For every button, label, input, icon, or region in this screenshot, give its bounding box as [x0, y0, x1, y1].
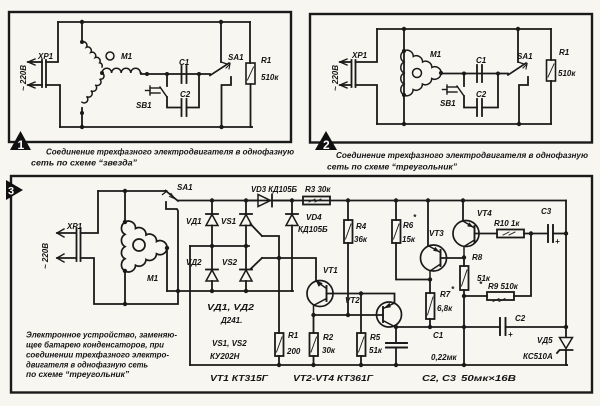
- wire R1 to bottom rail: [550, 81, 552, 124]
- svg-text:510к: 510к: [261, 73, 279, 82]
- wire motor top riser: [124, 191, 126, 222]
- motor M1 housing circle: [413, 69, 422, 78]
- svg-text:С2: С2: [180, 90, 191, 99]
- wire C2 return to phase line: [187, 74, 200, 108]
- capacitor C2: [477, 99, 482, 116]
- motor M1 winding C (bottom coil): [82, 73, 104, 103]
- node SA1 line / bridge bottom: [176, 289, 180, 293]
- wire top rail to winding A: [81, 22, 83, 42]
- svg-text:VД1, VД2: VД1, VД2: [207, 303, 255, 312]
- motor M1 delta winding: [404, 50, 441, 73]
- svg-text:R9 510к: R9 510к: [488, 282, 519, 291]
- capacitor C1: [386, 327, 407, 365]
- resistor R3: [303, 197, 330, 205]
- wire top rail: [377, 28, 551, 30]
- node VT4 collector / VT3 base: [462, 255, 466, 259]
- svg-text:200: 200: [286, 347, 301, 356]
- wire XP1 bottom arm to bottom rail: [46, 85, 60, 127]
- node SA1 bottom throw / bottom rail: [517, 122, 521, 126]
- wire bridge bottom: [167, 290, 293, 292]
- svg-text:~ 220В: ~ 220В: [19, 65, 28, 91]
- node VT1 emitter: [311, 313, 315, 317]
- description text block: [26, 331, 177, 380]
- svg-text:VД1: VД1: [186, 217, 202, 226]
- capacitor C2: [182, 99, 187, 116]
- connector XP1: [340, 59, 356, 88]
- node R5 top: [359, 291, 363, 295]
- resistor R9: [464, 234, 531, 302]
- transistor VT4: [453, 201, 497, 258]
- svg-text:R6: R6: [403, 221, 414, 230]
- svg-text:R1: R1: [559, 48, 570, 57]
- capacitor C1: [182, 66, 187, 83]
- svg-text:R8: R8: [472, 253, 483, 262]
- svg-text:сеть по схеме “звезда”: сеть по схеме “звезда”: [31, 159, 138, 168]
- diode VD2: [206, 246, 218, 291]
- svg-text:С1: С1: [179, 58, 190, 67]
- node VT4 emitter top: [461, 198, 465, 202]
- svg-text:сеть по схеме “треугольник”: сеть по схеме “треугольник”: [327, 163, 458, 172]
- node R6 top: [394, 198, 398, 202]
- node VD1 top: [210, 198, 214, 202]
- wire VS1 gate to R1: [262, 236, 279, 333]
- motor M1 housing circle: [133, 239, 145, 251]
- svg-text:3: 3: [8, 186, 14, 198]
- node top rail / winding A: [80, 20, 84, 24]
- svg-text:+: +: [508, 330, 513, 339]
- wire motor left riser: [403, 29, 405, 124]
- wire VT1 emitter to R2: [313, 315, 315, 333]
- svg-text:VS1, VS2: VS1, VS2: [212, 339, 247, 348]
- switch SA1: [508, 29, 528, 124]
- node R9 left: [462, 294, 466, 298]
- transistor VT3: [421, 201, 465, 280]
- resistor R8: [460, 258, 469, 366]
- svg-text:36к: 36к: [354, 235, 368, 244]
- capacitor C2: [500, 318, 566, 335]
- svg-text:щее батарею конденсаторов, при: щее батарею конденсаторов, при: [26, 341, 164, 350]
- wire XP1 top arm to top rail: [356, 29, 378, 62]
- node motor right vertex: [165, 246, 169, 250]
- node R10 right / C3: [529, 231, 533, 235]
- svg-text:0,22мк: 0,22мк: [431, 353, 457, 362]
- node VT3 collector junction: [428, 277, 432, 281]
- node SA1 top: [219, 20, 223, 24]
- wire bridge mid to common rail: [189, 246, 191, 365]
- wire base line VT2: [314, 314, 384, 316]
- wire top rail: [58, 21, 250, 23]
- wire VT1 base to VT2 emitter: [361, 294, 395, 304]
- switch SA1: [210, 22, 231, 127]
- node VS1 top: [244, 198, 248, 202]
- node bottom rail / motor: [402, 122, 406, 126]
- node VT3 emitter top: [426, 198, 430, 202]
- node C2 right rail: [564, 325, 568, 329]
- node SA1 top: [516, 27, 520, 31]
- node motor bottom-left vertex: [402, 93, 406, 97]
- wire top rail to R1: [550, 29, 552, 60]
- panel 3 frame: [11, 176, 592, 393]
- wire SB1 branch down: [166, 74, 168, 86]
- svg-text:R3 30к: R3 30к: [305, 185, 331, 194]
- svg-text:КД105Б: КД105Б: [298, 225, 328, 234]
- wire motor right vertex down: [166, 248, 168, 291]
- wire VT2 collector to R8 line: [396, 326, 464, 328]
- resistor R7: [426, 280, 435, 328]
- svg-text:VТ4: VТ4: [477, 209, 492, 218]
- node VD4 top: [290, 198, 294, 202]
- svg-text:VТ1 КТ315Г: VТ1 КТ315Г: [210, 374, 269, 383]
- svg-text:Д241.: Д241.: [220, 316, 242, 325]
- wire phase line to SA1: [441, 72, 508, 75]
- node winding C terminal: [80, 111, 84, 115]
- resistor R6: [392, 201, 430, 280]
- svg-text:R10 1к: R10 1к: [494, 219, 520, 228]
- wire motor bottom riser: [124, 271, 126, 304]
- wire VS2 gate to VT1 collector: [262, 258, 316, 281]
- svg-text:VS1: VS1: [221, 217, 237, 226]
- node C2 return: [496, 72, 500, 76]
- node SB1 branch: [165, 72, 169, 76]
- resistor R1: [246, 63, 255, 84]
- transistor VT1: [307, 280, 361, 315]
- svg-text:51к: 51к: [369, 346, 383, 355]
- svg-text:С1: С1: [476, 56, 487, 65]
- svg-text:XP1: XP1: [351, 51, 368, 60]
- zener diode VD5: [557, 338, 573, 366]
- svg-text:по схеме “треугольник”: по схеме “треугольник”: [26, 370, 129, 379]
- svg-text:*: *: [451, 285, 455, 294]
- svg-text:КУ202Н: КУ202Н: [210, 352, 240, 361]
- node VD1 bottom: [210, 244, 214, 248]
- svg-text:VТ2-VТ4 КТ361Г: VТ2-VТ4 КТ361Г: [293, 374, 374, 383]
- wire bottom rail: [60, 126, 252, 128]
- svg-text:Соединение трехфазного электро: Соединение трехфазного электродвигателя …: [336, 151, 588, 160]
- node SA1 bottom throw / bottom rail: [219, 125, 223, 129]
- node winding A terminal: [80, 40, 84, 44]
- svg-text:2: 2: [323, 138, 330, 152]
- resistor R4: [344, 201, 353, 316]
- node R4 bottom: [346, 313, 350, 317]
- node VT2 collector: [394, 325, 398, 329]
- svg-text:15к: 15к: [402, 235, 416, 244]
- svg-text:С2: С2: [515, 314, 526, 323]
- transistor VT2: [377, 302, 402, 327]
- pushbutton SB1: [443, 85, 465, 96]
- svg-text:С3: С3: [541, 207, 552, 216]
- node R5 bottom: [359, 363, 363, 367]
- svg-text:VD4: VD4: [306, 213, 322, 222]
- wire XP1 top arm to top rail: [46, 22, 58, 62]
- svg-text:Соединение трехфазного электро: Соединение трехфазного электродвигателя …: [46, 148, 294, 157]
- svg-text:М1: М1: [147, 274, 159, 283]
- capacitor C3: [548, 225, 566, 242]
- node C1 bottom: [394, 363, 398, 367]
- svg-text:VD3 КД105Б: VD3 КД105Б: [251, 185, 297, 194]
- svg-text:XP1: XP1: [66, 222, 83, 231]
- capacitor C1: [477, 65, 482, 82]
- node C2 return: [197, 72, 201, 76]
- wire top rail: [178, 200, 566, 202]
- panel 1 frame: [9, 12, 291, 142]
- wire XP1 bottom arm to motor bottom: [81, 258, 179, 304]
- wire common rail: [190, 364, 567, 366]
- svg-text:Электронное устройство, заменя: Электронное устройство, заменяю-: [26, 331, 177, 340]
- resistor R1: [547, 60, 556, 81]
- motor M1 winding B (right coil): [102, 68, 140, 73]
- wire XP1 bottom arm to bottom rail: [356, 85, 378, 124]
- wire SB1 to C2: [167, 97, 181, 108]
- pushbutton SB1: [146, 86, 168, 97]
- svg-text:30к: 30к: [322, 346, 336, 355]
- wire C2 line: [464, 326, 500, 328]
- wire bridge mid: [190, 245, 249, 247]
- connector XP1: [57, 228, 81, 262]
- node VS1 bottom: [244, 244, 248, 248]
- svg-text:R2: R2: [323, 333, 334, 342]
- node SB1 branch: [462, 72, 466, 76]
- svg-text:SВ1: SВ1: [136, 101, 152, 110]
- svg-text:*: *: [413, 213, 417, 222]
- wire R1 to bottom rail: [251, 84, 253, 127]
- caption panel 2: [327, 151, 588, 172]
- svg-text:R7: R7: [440, 290, 451, 299]
- svg-text:VS2: VS2: [222, 258, 238, 267]
- thyristor VS2: [240, 246, 262, 291]
- svg-text:КС510А: КС510А: [523, 352, 553, 361]
- wire winding C to bottom rail: [81, 108, 83, 127]
- switch SA1: [163, 191, 179, 292]
- resistor R10: [497, 230, 548, 238]
- node motor right vertex: [439, 71, 443, 75]
- node gate line junction: [277, 256, 281, 260]
- node C3 right: [564, 231, 568, 235]
- marker triangle 2: [315, 131, 337, 152]
- resistor R1 (gate): [275, 333, 284, 365]
- svg-text:VД2: VД2: [186, 258, 202, 267]
- wire SB1 to C2: [464, 96, 477, 108]
- node bottom rail / winding C: [80, 125, 84, 129]
- svg-text:6,8к: 6,8к: [437, 304, 453, 313]
- svg-text:SА1: SА1: [517, 52, 533, 61]
- svg-text:R4: R4: [356, 222, 367, 231]
- wire C2 return to phase line: [482, 74, 498, 108]
- svg-text:R1: R1: [288, 331, 299, 340]
- connector XP1: [28, 59, 46, 88]
- svg-text:С2: С2: [476, 90, 487, 99]
- node star point: [100, 71, 104, 75]
- node motor top-left vertex: [123, 220, 127, 224]
- node R7 bottom: [428, 325, 432, 329]
- wire top rail to R1: [249, 22, 251, 63]
- node motor top-left vertex: [402, 49, 406, 53]
- diode VD1: [206, 201, 218, 247]
- marker triangle 1: [10, 131, 31, 152]
- panel 2 frame: [310, 14, 592, 143]
- wire top feed to SA1: [98, 190, 166, 192]
- node VD2 bottom: [210, 289, 214, 293]
- node C2 line left: [462, 325, 466, 329]
- wire XP1 top arm riser: [81, 191, 99, 233]
- node motor top junction: [123, 189, 127, 193]
- node R2 bottom: [311, 363, 315, 367]
- svg-text:SА1: SА1: [177, 183, 193, 192]
- node top rail / motor: [402, 27, 406, 31]
- node VS2 bottom: [244, 289, 248, 293]
- wire phase line to C1: [141, 73, 210, 74]
- svg-text:1: 1: [18, 138, 25, 152]
- motor M1 winding A (top coil): [82, 42, 102, 67]
- diode VD3: [246, 195, 292, 207]
- svg-text:М1: М1: [121, 52, 133, 61]
- svg-text:SВ1: SВ1: [440, 99, 456, 108]
- resistor R5: [357, 294, 366, 366]
- svg-text:VТ3: VТ3: [429, 229, 444, 238]
- wire bottom rail: [377, 123, 551, 125]
- svg-text:R5: R5: [370, 333, 381, 342]
- caption panel 1: [31, 148, 294, 168]
- node R1 bottom: [277, 363, 281, 367]
- resistor R2: [310, 333, 319, 365]
- svg-text:~ 220В: ~ 220В: [331, 65, 340, 91]
- node R8 line bottom: [462, 363, 466, 367]
- svg-text:R1: R1: [261, 56, 272, 65]
- svg-text:+: +: [555, 237, 560, 246]
- svg-text:VТ1: VТ1: [323, 266, 338, 275]
- node motor bottom-left vertex: [123, 269, 127, 273]
- svg-text:~ 220В: ~ 220В: [41, 243, 50, 269]
- svg-text:соединении трехфазного электро: соединении трехфазного электро-: [26, 351, 169, 360]
- svg-text:С2, С3: С2, С3: [422, 374, 457, 383]
- motor M1 housing circle: [106, 52, 114, 60]
- diode VD4: [286, 201, 298, 292]
- motor M1 delta winding: [125, 221, 167, 248]
- node R4 top: [346, 198, 350, 202]
- svg-text:VД5: VД5: [537, 336, 553, 345]
- svg-text:510к: 510к: [558, 69, 576, 78]
- svg-text:XP1: XP1: [37, 52, 54, 61]
- svg-text:50мк×16В: 50мк×16В: [461, 374, 516, 383]
- svg-text:М1: М1: [430, 50, 442, 59]
- thyristor VS1: [240, 201, 262, 247]
- node winding B terminal: [145, 72, 149, 76]
- svg-text:SА1: SА1: [228, 53, 244, 62]
- svg-text:двигателя в однофазную сеть: двигателя в однофазную сеть: [26, 361, 148, 370]
- node motor bottom junction: [123, 302, 127, 306]
- wire SB1 branch down: [463, 74, 465, 87]
- wire right rail: [565, 201, 567, 338]
- svg-text:С1: С1: [433, 331, 444, 340]
- marker triangle 3: [6, 180, 23, 200]
